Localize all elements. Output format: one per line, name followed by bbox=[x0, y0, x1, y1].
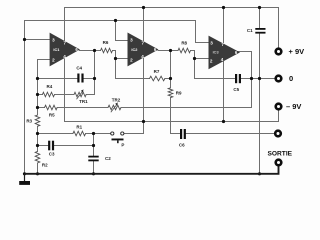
svg-text:C1: C1 bbox=[247, 28, 253, 33]
svg-text:+ 9V: + 9V bbox=[289, 47, 305, 56]
wire left rail x24.5 bbox=[24, 21, 26, 174]
svg-text:C2: C2 bbox=[105, 156, 111, 161]
svg-text:R4: R4 bbox=[47, 84, 53, 89]
wire IC1 output row bbox=[80, 50, 101, 52]
wire R7 row bbox=[116, 78, 171, 80]
wire C5 row right to 0 terminal bbox=[241, 78, 275, 80]
switch P left contact bbox=[111, 132, 114, 135]
trimmer TR1 arrow bbox=[77, 91, 84, 99]
ground symbol stub bbox=[24, 174, 26, 181]
wire R1 node down to C2 bbox=[93, 134, 95, 156]
svg-text:C6: C6 bbox=[179, 143, 185, 148]
wire C5 row left bbox=[195, 78, 235, 80]
capacitor C5 bbox=[235, 74, 237, 83]
wire R8 corner to IC3 pin2 bbox=[191, 51, 195, 59]
wire IC2 pin2 row bbox=[116, 58, 128, 60]
wire +9V top rail bbox=[65, 7, 279, 9]
wire R9 top lead bbox=[170, 79, 172, 88]
wire IC2 pin3 feed bbox=[116, 21, 128, 41]
wire R1 row left bbox=[38, 133, 73, 135]
svg-text:7: 7 bbox=[221, 42, 224, 47]
wire IC2 pin7 drop bbox=[143, 8, 145, 43]
svg-text:C3: C3 bbox=[49, 152, 55, 157]
svg-text:2: 2 bbox=[210, 58, 213, 63]
svg-text:R3: R3 bbox=[26, 118, 32, 123]
resistor R7 bbox=[150, 76, 165, 81]
wire pin2 node down to C5 row bbox=[194, 59, 196, 79]
wire feedback vertical x94.5 bbox=[94, 51, 96, 95]
op-amp IC1 bbox=[50, 33, 80, 67]
op-amp IC2 bbox=[128, 33, 159, 67]
switch P right contact bbox=[121, 132, 124, 135]
wire R1 to switch bbox=[86, 133, 111, 135]
wire IC2 out down to R7 bbox=[170, 51, 172, 79]
wire 0 rail x259.5 bbox=[259, 34, 261, 174]
wire R9 bottom to C6 bbox=[171, 98, 180, 134]
wire switch right lead bbox=[124, 133, 143, 135]
capacitor C2 bbox=[88, 156, 98, 158]
ground bus wire bbox=[25, 166, 279, 174]
svg-text:P: P bbox=[121, 143, 124, 148]
wire C3 row left bbox=[38, 145, 48, 147]
svg-text:4: 4 bbox=[141, 54, 144, 59]
wire pin2 node down to R7 row bbox=[115, 59, 117, 79]
wire R6 right corner to pin2 node bbox=[113, 51, 116, 59]
capacitor C4 bbox=[77, 74, 79, 83]
svg-text:4: 4 bbox=[63, 54, 66, 59]
svg-text:3: 3 bbox=[210, 40, 213, 45]
trimmer TR1 bbox=[74, 92, 86, 97]
svg-text:C5: C5 bbox=[233, 87, 239, 92]
svg-text:SORTIE: SORTIE bbox=[268, 151, 293, 158]
trimmer TR2 arrow bbox=[111, 104, 118, 112]
wire pin2 chain x37.5 lower bbox=[37, 163, 39, 174]
resistor R8 bbox=[178, 48, 191, 53]
resistor R3 bbox=[35, 115, 40, 126]
svg-text:– 9V: – 9V bbox=[286, 102, 301, 111]
wire IC3 pin2 row bbox=[195, 58, 209, 60]
op-amp IC3 bbox=[209, 36, 241, 70]
capacitor C6 bbox=[180, 129, 182, 139]
wire TR1 right lead bbox=[86, 94, 94, 96]
svg-text:7: 7 bbox=[63, 41, 66, 46]
switch P stem bbox=[117, 140, 119, 143]
junction node dots bbox=[142, 6, 145, 9]
wire IC2 output row bbox=[158, 50, 178, 52]
svg-text:IC2: IC2 bbox=[131, 47, 138, 52]
trimmer TR2 bbox=[108, 105, 121, 110]
wire IC1 pin3 row bbox=[25, 39, 50, 41]
svg-text:TR2: TR2 bbox=[112, 97, 121, 102]
wire C4 row left bbox=[38, 78, 78, 80]
resistor R4 bbox=[42, 92, 54, 97]
wire bias net horizontal bbox=[25, 20, 196, 22]
wire pin2 chain x37.5 upper bbox=[37, 60, 39, 116]
wire IC2 pin4 drop bbox=[143, 58, 145, 134]
svg-text:IC1: IC1 bbox=[53, 47, 60, 52]
svg-text:R6: R6 bbox=[103, 40, 109, 45]
wire R5 TR2 row left bbox=[38, 107, 109, 109]
svg-text:R7: R7 bbox=[154, 69, 160, 74]
svg-text:R8: R8 bbox=[181, 41, 187, 46]
wire IC3 pin3 feed bbox=[196, 21, 209, 43]
svg-text:R9: R9 bbox=[176, 91, 182, 96]
capacitor C3 bbox=[48, 141, 50, 151]
capacitor C1 bbox=[255, 28, 265, 30]
svg-text:7: 7 bbox=[142, 41, 145, 46]
wire -9V long row bbox=[65, 121, 279, 123]
wire C3 row right bbox=[54, 145, 93, 147]
svg-text:C4: C4 bbox=[76, 66, 82, 71]
wire IC1 pin7 drop bbox=[64, 8, 66, 43]
svg-text:2: 2 bbox=[52, 58, 55, 63]
trimmer TR2 arrowhead bbox=[115, 102, 118, 105]
wire pin2 chain x37.5 mid bbox=[37, 126, 39, 151]
wire IC3 pin4 drop bbox=[223, 61, 225, 122]
svg-text:3: 3 bbox=[52, 38, 55, 43]
svg-text:3: 3 bbox=[130, 38, 133, 43]
resistor R6 bbox=[101, 48, 113, 53]
svg-text:4: 4 bbox=[221, 57, 224, 62]
wire +9V terminal drop bbox=[278, 8, 280, 48]
wire C1 top stem bbox=[259, 8, 261, 28]
resistor R2 bbox=[35, 151, 40, 163]
svg-text:IC3: IC3 bbox=[213, 49, 220, 54]
svg-text:2: 2 bbox=[130, 58, 133, 63]
wire TR2 row right to corner bbox=[121, 107, 252, 109]
terminal 0 bbox=[276, 76, 282, 82]
svg-text:R2: R2 bbox=[42, 162, 48, 167]
trimmer TR1 arrowhead bbox=[81, 89, 84, 92]
wire C4 row right bbox=[84, 78, 95, 80]
resistor R1 bbox=[73, 131, 86, 136]
switch P actuator bar bbox=[112, 139, 124, 141]
svg-text:R5: R5 bbox=[49, 113, 55, 118]
wire IC3 pin7 drop bbox=[223, 8, 225, 46]
terminal output bbox=[275, 131, 281, 137]
svg-text:TR1: TR1 bbox=[79, 99, 88, 104]
terminal SORTIE ground bbox=[276, 160, 282, 166]
wire IC3 output to corner bbox=[238, 51, 252, 53]
wire C2 bottom stem bbox=[93, 161, 95, 173]
wire R4 row bbox=[38, 94, 75, 96]
wire IC1 pin2 row bbox=[38, 59, 50, 61]
wire C6 row to output terminal bbox=[186, 133, 274, 135]
svg-text:0: 0 bbox=[289, 74, 293, 83]
resistor R9 bbox=[168, 88, 173, 98]
ground symbol pad bbox=[19, 181, 30, 185]
svg-text:R1: R1 bbox=[76, 124, 82, 129]
terminal +9V bbox=[276, 49, 282, 55]
resistor R5 bbox=[45, 105, 58, 110]
wire -9V terminal drop bbox=[278, 110, 280, 121]
wire IC3 out vertical down to bias row bbox=[251, 52, 253, 108]
wire IC1 pin4 drop bbox=[64, 59, 66, 122]
terminal -9V bbox=[276, 104, 282, 110]
